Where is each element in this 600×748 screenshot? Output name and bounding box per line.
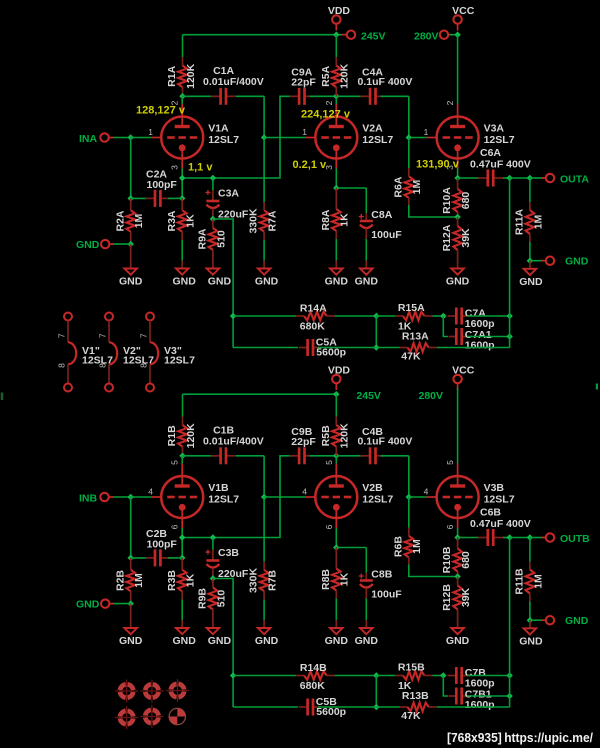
wire xyxy=(529,242,531,261)
svg-text:GND: GND xyxy=(173,276,197,288)
wire xyxy=(181,240,183,261)
capacitor C6B xyxy=(478,529,503,546)
svg-text:GND: GND xyxy=(325,635,349,647)
tube V2B (12SL7 triode) xyxy=(305,464,357,529)
svg-text:GND: GND xyxy=(173,635,197,647)
pad xyxy=(140,680,163,703)
wire xyxy=(365,239,367,261)
svg-text:V3A: V3A xyxy=(484,123,505,135)
svg-text:12SL7: 12SL7 xyxy=(208,494,239,506)
wire xyxy=(263,600,265,621)
wire xyxy=(503,177,510,179)
svg-text:39K: 39K xyxy=(460,587,472,607)
resistor R9B xyxy=(209,579,218,621)
svg-text:GND: GND xyxy=(565,256,589,268)
wire xyxy=(113,137,131,139)
wire xyxy=(130,497,132,558)
wire xyxy=(443,316,448,337)
svg-text:120K: 120K xyxy=(339,423,351,449)
terminal INA xyxy=(100,133,113,141)
svg-text:R11B: R11B xyxy=(513,568,525,595)
wire xyxy=(263,96,265,137)
capacitor C2A xyxy=(145,190,174,207)
svg-text:R9B: R9B xyxy=(196,588,208,609)
resistor R12A xyxy=(453,217,462,261)
wire xyxy=(212,538,214,550)
ground xyxy=(451,620,464,634)
svg-text:100pF: 100pF xyxy=(147,179,178,191)
capacitor C3B xyxy=(205,549,219,579)
svg-text:R5B: R5B xyxy=(320,425,332,446)
wire xyxy=(376,347,400,349)
svg-text:245V: 245V xyxy=(356,390,381,402)
tube V1B (12SL7 triode) xyxy=(151,464,203,529)
wire xyxy=(530,537,544,539)
svg-text:0.1uF 400V: 0.1uF 400V xyxy=(358,76,413,88)
svg-text:128,127 v: 128,127 v xyxy=(136,105,186,117)
resistor R7B xyxy=(260,562,269,600)
svg-text:1K: 1K xyxy=(185,214,197,228)
ground xyxy=(258,620,271,634)
resistor R11A xyxy=(526,202,535,242)
svg-text:1M: 1M xyxy=(411,180,423,195)
junction xyxy=(440,672,447,679)
tube V1A (12SL7 triode) xyxy=(151,104,203,169)
tube V3A (12SL7 triode) xyxy=(427,104,479,169)
svg-text:100uF: 100uF xyxy=(371,229,402,241)
wire xyxy=(131,137,152,139)
capacitor C7B xyxy=(448,667,469,684)
junction xyxy=(406,494,413,501)
wire xyxy=(509,538,511,708)
svg-text:680K: 680K xyxy=(300,680,326,692)
capacitor C5B xyxy=(299,699,320,716)
wire xyxy=(365,599,367,621)
svg-text:120K: 120K xyxy=(185,423,197,449)
svg-text:1M: 1M xyxy=(411,539,423,554)
resistor R13B xyxy=(400,703,437,712)
svg-text:39K: 39K xyxy=(460,228,472,248)
junction xyxy=(454,534,461,541)
svg-text:7: 7 xyxy=(57,333,67,338)
wire xyxy=(183,34,347,36)
junction xyxy=(179,555,186,562)
junction xyxy=(179,175,186,182)
ground xyxy=(124,620,137,634)
svg-text:R6B: R6B xyxy=(392,536,404,557)
capacitor C4A xyxy=(360,88,385,105)
svg-text:V1A: V1A xyxy=(208,123,229,135)
svg-text:1K: 1K xyxy=(339,213,351,227)
wire xyxy=(335,675,377,677)
tube V3B (12SL7 triode) xyxy=(427,464,479,529)
wire xyxy=(408,456,410,497)
svg-text:GND: GND xyxy=(325,276,349,288)
svg-text:330K: 330K xyxy=(248,568,260,594)
junction xyxy=(527,617,534,624)
svg-text:22pF: 22pF xyxy=(291,436,316,448)
wire xyxy=(335,456,337,464)
svg-text:GND: GND xyxy=(255,276,279,288)
wire xyxy=(409,137,427,139)
wire xyxy=(530,177,544,179)
svg-text:1,1 v: 1,1 v xyxy=(188,162,213,174)
svg-text:510: 510 xyxy=(215,230,227,248)
wire xyxy=(458,537,479,539)
junction xyxy=(406,134,413,141)
wire xyxy=(131,197,147,199)
svg-text:680: 680 xyxy=(460,192,472,210)
svg-text:120K: 120K xyxy=(339,63,351,89)
wire xyxy=(263,456,265,497)
wire xyxy=(181,96,183,104)
capacitor C7A1 xyxy=(449,328,469,345)
junction xyxy=(527,534,534,541)
capacitor C1B xyxy=(211,447,236,464)
svg-text:4: 4 xyxy=(148,487,153,497)
svg-text:GND: GND xyxy=(446,635,470,647)
wire xyxy=(182,35,184,57)
ground xyxy=(360,261,373,275)
wire xyxy=(376,315,395,317)
wire xyxy=(335,394,337,416)
node VDD (A channel) xyxy=(332,15,340,30)
wire xyxy=(529,538,531,562)
junction xyxy=(454,175,461,182)
junction xyxy=(373,344,380,351)
wire xyxy=(530,619,544,621)
junction xyxy=(333,185,340,192)
svg-text:VCC: VCC xyxy=(452,364,475,376)
wire xyxy=(335,169,337,189)
svg-text:245V: 245V xyxy=(361,30,386,42)
tube V2A (12SL7 triode) xyxy=(305,104,357,169)
svg-text:47K: 47K xyxy=(401,710,421,722)
svg-text:280V: 280V xyxy=(414,30,439,42)
svg-text:1: 1 xyxy=(148,127,153,137)
wire xyxy=(263,138,265,203)
wire xyxy=(529,178,531,202)
junction xyxy=(454,573,461,580)
resistor R14A xyxy=(296,312,335,321)
svg-text:6: 6 xyxy=(445,524,455,529)
svg-text:GND: GND xyxy=(255,635,279,647)
svg-text:12SL7: 12SL7 xyxy=(484,494,515,506)
svg-text:R14A: R14A xyxy=(300,303,327,315)
svg-text:1M: 1M xyxy=(133,213,145,228)
wire xyxy=(182,456,294,538)
junction xyxy=(333,31,340,38)
svg-text:5: 5 xyxy=(445,460,455,465)
svg-text:R10B: R10B xyxy=(441,546,453,573)
svg-text:1M: 1M xyxy=(532,214,544,229)
terminal 280V xyxy=(440,31,453,39)
svg-text:C8B: C8B xyxy=(371,569,392,581)
wire xyxy=(181,456,183,464)
capacitor C8A xyxy=(359,213,373,239)
junction xyxy=(127,600,134,607)
svg-text:R8A: R8A xyxy=(320,209,332,230)
tube heater V3 (12SL7 filament) xyxy=(146,313,158,392)
svg-text:R3B: R3B xyxy=(166,570,178,591)
tube heater V2 (12SL7 filament) xyxy=(105,313,117,392)
wire xyxy=(182,394,184,416)
wire xyxy=(510,537,530,539)
resistor R9A xyxy=(209,219,218,261)
svg-text:R6A: R6A xyxy=(392,176,404,197)
svg-text:1: 1 xyxy=(302,127,307,137)
svg-text:V3B: V3B xyxy=(484,482,505,494)
terminal OUTB xyxy=(541,533,554,541)
resistor R10A xyxy=(453,178,462,217)
svg-text:8: 8 xyxy=(139,363,149,368)
junction xyxy=(373,704,380,711)
wire xyxy=(131,496,152,498)
wire xyxy=(437,706,510,708)
svg-text:0.1uF 400V: 0.1uF 400V xyxy=(358,435,413,447)
svg-text:R9A: R9A xyxy=(196,228,208,249)
ground xyxy=(360,620,373,634)
wire xyxy=(457,169,459,179)
wire xyxy=(213,219,233,348)
wire xyxy=(408,497,410,528)
wire xyxy=(408,138,410,169)
junction xyxy=(333,453,340,460)
wire xyxy=(433,315,444,317)
svg-text:R8B: R8B xyxy=(320,569,332,590)
svg-text:0.01uF/400V: 0.01uF/400V xyxy=(203,76,264,88)
svg-text:1M: 1M xyxy=(133,573,145,588)
wire xyxy=(433,675,444,677)
svg-text:GND: GND xyxy=(119,276,143,288)
capacitor C7A xyxy=(448,308,469,325)
resistor R6B xyxy=(405,528,414,565)
svg-text:12SL7: 12SL7 xyxy=(362,494,393,506)
svg-text:R2A: R2A xyxy=(114,210,126,231)
svg-text:GND: GND xyxy=(76,599,100,611)
svg-text:7: 7 xyxy=(139,333,149,338)
svg-text:VDD: VDD xyxy=(328,364,351,376)
svg-text:GND: GND xyxy=(446,276,470,288)
junction xyxy=(210,216,217,223)
pad (fiducial) xyxy=(169,708,185,724)
ground xyxy=(176,261,189,275)
svg-text:R7A: R7A xyxy=(266,210,278,231)
svg-text:2: 2 xyxy=(445,100,455,105)
junction xyxy=(373,313,380,320)
wire xyxy=(467,675,510,677)
wire xyxy=(113,603,131,605)
svg-text:R11A: R11A xyxy=(513,208,525,235)
svg-text:R2B: R2B xyxy=(114,570,126,591)
svg-text:4: 4 xyxy=(302,487,307,497)
svg-text:R7B: R7B xyxy=(266,570,278,591)
wire xyxy=(130,138,132,199)
svg-text:0.47uF 400V: 0.47uF 400V xyxy=(470,518,531,530)
svg-text:131,90 v: 131,90 v xyxy=(416,159,460,171)
wire xyxy=(233,315,296,317)
junction xyxy=(373,672,380,679)
wire xyxy=(503,537,510,539)
junction xyxy=(506,333,513,340)
junction xyxy=(210,175,217,182)
svg-text:R3A: R3A xyxy=(166,210,178,231)
svg-text:0.2,1 v: 0.2,1 v xyxy=(293,159,328,171)
junction xyxy=(506,313,513,320)
wire xyxy=(409,205,458,217)
svg-text:5: 5 xyxy=(324,460,334,465)
terminal GND xyxy=(101,599,114,607)
wire xyxy=(263,240,265,261)
junction xyxy=(454,31,461,38)
svg-text:1600p: 1600p xyxy=(465,340,495,352)
capacitor C6A xyxy=(478,170,503,187)
junction xyxy=(230,672,237,679)
junction xyxy=(210,534,217,541)
node VDD (B channel) xyxy=(332,375,340,390)
wire xyxy=(381,95,409,97)
svg-text:V2A: V2A xyxy=(362,123,383,135)
svg-text:GND: GND xyxy=(565,615,589,627)
svg-text:R1A: R1A xyxy=(166,65,178,86)
wire xyxy=(236,95,264,97)
terminal 245V xyxy=(342,31,355,39)
svg-text:6: 6 xyxy=(324,524,334,529)
junction xyxy=(506,534,513,541)
wire xyxy=(335,599,337,621)
terminal GND xyxy=(541,616,554,624)
wire xyxy=(596,384,598,390)
wire xyxy=(263,497,265,562)
svg-text:1: 1 xyxy=(424,127,429,137)
capacitor C9B xyxy=(289,447,314,464)
junction xyxy=(230,313,237,320)
ground xyxy=(524,261,537,275)
ground xyxy=(330,620,343,634)
wire xyxy=(335,35,337,57)
resistor R8A xyxy=(332,188,341,239)
svg-text:R5A: R5A xyxy=(320,65,332,86)
capacitor C7B1 xyxy=(449,688,469,705)
wire xyxy=(233,347,298,349)
svg-text:R10A: R10A xyxy=(441,187,453,214)
wire xyxy=(381,455,409,457)
wire xyxy=(181,600,183,621)
junction xyxy=(179,453,186,460)
svg-text:GND: GND xyxy=(355,635,379,647)
wire xyxy=(310,455,337,457)
svg-text:C3B: C3B xyxy=(218,547,239,559)
junction xyxy=(333,544,340,551)
resistor R15B xyxy=(395,671,433,680)
svg-text:2: 2 xyxy=(324,100,334,105)
ground xyxy=(176,620,189,634)
ground xyxy=(330,261,343,275)
svg-text:1K: 1K xyxy=(185,573,197,587)
node VCC (B channel) xyxy=(453,375,461,390)
svg-text:0.47uF 400V: 0.47uF 400V xyxy=(470,159,531,171)
junction xyxy=(179,93,186,100)
capacitor C8B xyxy=(359,573,373,599)
wire xyxy=(183,393,337,395)
wire xyxy=(510,177,530,179)
node VCC (A channel) xyxy=(453,15,461,30)
junction xyxy=(506,175,513,182)
capacitor C3A xyxy=(205,189,219,219)
capacitor C4B xyxy=(360,447,385,464)
svg-text:280V: 280V xyxy=(419,390,444,402)
junction xyxy=(210,575,217,582)
svg-text:INA: INA xyxy=(79,133,98,145)
resistor R7A xyxy=(260,202,269,240)
wire xyxy=(113,496,131,498)
svg-text:680: 680 xyxy=(460,551,472,569)
wire xyxy=(318,706,376,708)
svg-text:12SL7: 12SL7 xyxy=(208,134,239,146)
capacitor C1A xyxy=(211,88,236,105)
pad xyxy=(115,706,138,729)
wire xyxy=(335,239,337,261)
pad xyxy=(140,705,163,728)
resistor R15A xyxy=(395,312,433,321)
svg-text:22pF: 22pF xyxy=(291,76,316,88)
wire xyxy=(335,96,337,104)
ground xyxy=(451,261,464,275)
wire xyxy=(365,548,367,573)
wire xyxy=(236,455,264,457)
junction xyxy=(179,195,186,202)
wire xyxy=(458,177,479,179)
svg-text:GND: GND xyxy=(76,239,100,251)
junction xyxy=(527,175,534,182)
ground xyxy=(524,620,537,634)
svg-text:680K: 680K xyxy=(300,321,326,333)
svg-text:C8A: C8A xyxy=(371,209,392,221)
svg-text:GND: GND xyxy=(119,635,143,647)
terminal INB xyxy=(100,493,113,501)
wire xyxy=(264,496,305,498)
wire xyxy=(365,188,367,213)
svg-text:100uF: 100uF xyxy=(371,589,402,601)
resistor R3A xyxy=(178,198,187,240)
svg-text:R14B: R14B xyxy=(300,662,327,674)
wire xyxy=(335,528,337,548)
junction xyxy=(333,391,340,398)
wire xyxy=(336,187,366,189)
wire xyxy=(181,169,183,199)
ground xyxy=(258,261,271,275)
wire xyxy=(264,137,305,139)
resistor R3B xyxy=(178,558,187,600)
junction xyxy=(440,313,447,320)
svg-text:1K: 1K xyxy=(339,572,351,586)
resistor R1A xyxy=(178,57,187,96)
pad xyxy=(115,680,138,703)
wire xyxy=(509,178,511,348)
svg-text:R1B: R1B xyxy=(166,425,178,446)
junction xyxy=(261,134,268,141)
resistor R2B xyxy=(126,558,135,604)
wire xyxy=(113,243,131,245)
svg-text:V2B: V2B xyxy=(362,482,383,494)
wire xyxy=(131,557,147,559)
resistor R14B xyxy=(296,671,335,680)
junction xyxy=(127,555,134,562)
svg-text:C6B: C6B xyxy=(480,507,501,519)
svg-text:8: 8 xyxy=(57,363,67,368)
wire xyxy=(1,393,4,401)
svg-text:GND: GND xyxy=(519,635,543,647)
